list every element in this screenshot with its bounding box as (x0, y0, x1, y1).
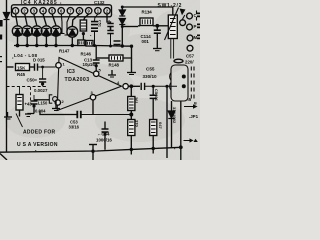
resistor R147 on bus (78, 40, 85, 46)
diode D14 on left rail (4, 13, 10, 20)
svg-text:C50≈: C50≈ (27, 78, 38, 83)
svg-text:361: 361 (134, 97, 139, 104)
resistor R145 vertical (80, 14, 89, 46)
resistor R61 (128, 86, 135, 114)
capacitor C55 (141, 83, 177, 90)
LED LD6 (32, 26, 42, 45)
svg-text:330/10: 330/10 (143, 74, 157, 79)
wire stub testpoint b (65, 14, 71, 35)
resistor R70 (128, 115, 135, 155)
wire D17 branch (166, 86, 168, 158)
svg-text:SW1-2/2: SW1-2/2 (158, 3, 183, 9)
svg-text:ADDED FOR: ADDED FOR (23, 130, 56, 136)
wire bottom left corner (0, 154, 7, 161)
arrow bottom out (184, 138, 198, 142)
wire pin1 to LD4 (16, 14, 18, 26)
wire stub testpoint a (60, 14, 65, 34)
node jack contact 2 (182, 84, 186, 88)
svg-text:33/16: 33/16 (69, 125, 80, 130)
wire LED bus (14, 45, 132, 48)
svg-text:R146: R146 (81, 52, 92, 57)
node C55 out junction (152, 85, 169, 88)
node top feed (121, 6, 124, 29)
wire bottom bus (0, 147, 181, 152)
partial mark left edge (0, 20, 3, 62)
pin 2 (55, 99, 64, 105)
switch SW1 contacts (180, 9, 193, 52)
connector plug J2 (49, 95, 57, 103)
label switch pos P (194, 24, 201, 30)
LED LD8 (51, 26, 61, 45)
svg-text:15K: 15K (17, 65, 26, 70)
svg-text:1000/16: 1000/16 (96, 138, 112, 143)
pin 5 (94, 68, 102, 77)
wire input (7, 66, 14, 68)
node C114 tap (155, 24, 159, 28)
pin 1 (56, 62, 66, 69)
diode pair D100 (119, 7, 125, 46)
capacitor C115 stack (107, 24, 120, 47)
ground R148 (127, 58, 136, 75)
svg-text:←C54: ←C54 (97, 132, 110, 137)
wire pin2 to LD5 (25, 14, 28, 26)
wire pin3 drop (92, 100, 94, 115)
svg-text:R148: R148 (109, 63, 120, 68)
svg-text:IC3: IC3 (67, 69, 75, 75)
svg-text:R45: R45 (17, 72, 26, 77)
svg-text:D 015: D 015 (33, 58, 45, 63)
wire mid feed (122, 26, 138, 28)
wire left rail (6, 0, 8, 152)
jack J1 outline (170, 65, 188, 101)
svg-text:R147: R147 (59, 49, 70, 54)
svg-text:B: B (194, 102, 197, 106)
wire R148 left (96, 57, 109, 59)
resistor R62 (150, 120, 157, 154)
svg-text:I5: I5 (188, 97, 192, 102)
wire top feed (122, 7, 173, 15)
pin 3 (90, 90, 95, 100)
svg-text:047: 047 (158, 122, 163, 129)
svg-text:C132: C132 (94, 0, 105, 5)
svg-text:C55: C55 (146, 67, 155, 72)
svg-text:0.004: 0.004 (35, 109, 46, 114)
wire pin5 riser (95, 46, 97, 71)
paper background (0, 0, 200, 160)
capacitor C56 (150, 86, 157, 119)
dashed edge line (191, 11, 196, 99)
LED LD5 (22, 26, 32, 45)
svg-text:C57: C57 (186, 54, 195, 59)
resistor R148 (109, 55, 123, 61)
wire output (128, 85, 140, 87)
label switch pos C (194, 13, 201, 19)
wire bottom right drop (180, 101, 182, 160)
specks (12, 3, 175, 152)
capacitor C50 (39, 67, 46, 87)
pin 4 output (117, 80, 128, 89)
ground left b (25, 114, 34, 117)
capacitor C131 (93, 60, 100, 68)
label switch pos M (194, 35, 201, 41)
capacitor C53 (77, 111, 132, 118)
capacitor C49 series (30, 64, 56, 71)
svg-text:001: 001 (142, 39, 150, 44)
svg-text:P: P (194, 24, 197, 29)
arrow B out (184, 102, 198, 109)
wire pin9 drop (107, 14, 111, 23)
svg-text:370: 370 (135, 120, 140, 127)
ground near opamp top (108, 70, 116, 77)
node jack contact 1 (182, 75, 186, 79)
capacitor C114 (153, 26, 162, 51)
wire feedback (40, 111, 77, 115)
label pointer (16, 114, 23, 128)
svg-text:L150: L150 (38, 100, 48, 105)
ground chassis on bus (89, 145, 97, 161)
dashed usa box top (7, 87, 48, 102)
potentiometer P1 (165, 8, 179, 41)
ground connector (52, 102, 60, 111)
svg-text:31N4002: 31N4002 (172, 107, 177, 124)
wire R148 right to bus (123, 46, 132, 58)
node output junction (129, 84, 133, 88)
wire pin5 to LD8 (52, 14, 56, 26)
svg-text:220/: 220/ (185, 60, 194, 65)
IC U4 KA2285 (12, 5, 112, 17)
capacitor C54 (102, 122, 109, 150)
capacitor L150 (31, 95, 38, 114)
wire pin3 to LD6 (34, 14, 37, 26)
wire L150 to plug (34, 99, 49, 101)
wire R114 to pot (157, 25, 168, 27)
resistor R43 (16, 87, 23, 117)
node C50 tap (41, 66, 44, 69)
resistor R114 (138, 18, 157, 26)
svg-text:M: M (194, 35, 198, 40)
svg-text:C51: C51 (98, 20, 102, 27)
LED LD7 (41, 26, 51, 45)
diode D17 (168, 101, 174, 148)
op-amp U3 triangle (57, 58, 121, 111)
wire pin4 to LD7 (43, 14, 46, 26)
svg-text:IC4 KA2285: IC4 KA2285 (21, 0, 58, 6)
resistor R45 15K (16, 64, 30, 71)
capacitor C57 (174, 59, 183, 63)
svg-text:0.0027: 0.0027 (34, 88, 48, 93)
node bottom right (130, 145, 183, 151)
ground left a (4, 112, 12, 119)
svg-text:TDA2003: TDA2003 (65, 77, 90, 83)
wire pot bottom (171, 39, 174, 59)
svg-text:R114: R114 (142, 10, 153, 15)
svg-text:U S A VERSION: U S A VERSION (17, 142, 58, 148)
capacitor C132 stack (91, 14, 98, 46)
node divider (129, 113, 133, 117)
diode D15 (67, 14, 80, 46)
svg-text:.JP1: .JP1 (189, 114, 199, 119)
resistor R146 on bus (86, 41, 93, 47)
node bus junctions (16, 44, 134, 48)
LED LD4 (12, 26, 22, 45)
svg-text:C5601: C5601 (154, 89, 159, 102)
